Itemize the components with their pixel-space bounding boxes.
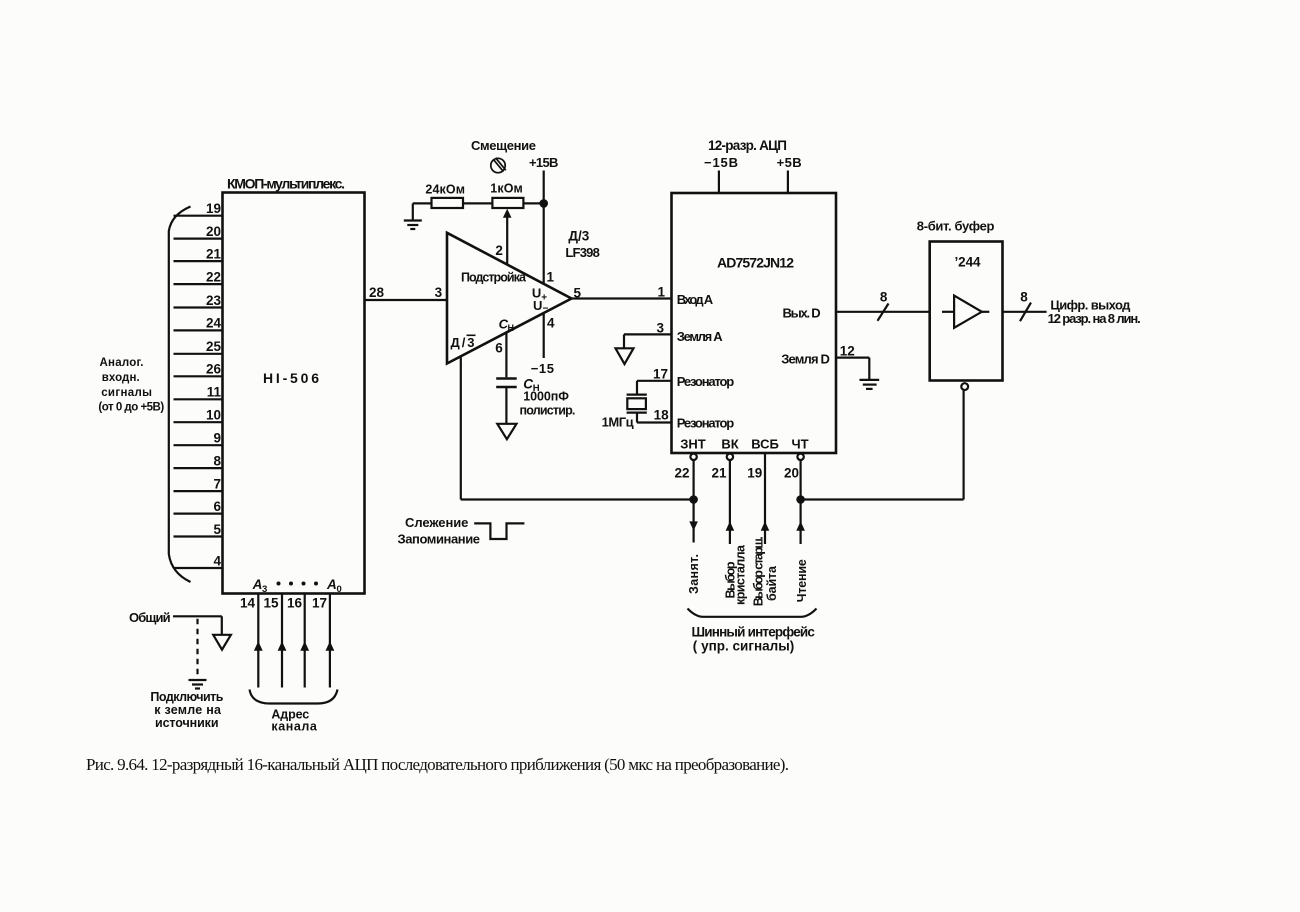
svg-text:1: 1 <box>547 270 555 285</box>
wire pin 25 <box>174 339 223 354</box>
wire pin 22 <box>174 269 223 284</box>
svg-text:U: U <box>533 298 542 313</box>
screw trimmer symbol <box>491 158 506 173</box>
pin CHT read (20) <box>784 437 809 545</box>
ground source (3-bar) <box>189 680 207 689</box>
ground digital (3-bar) <box>860 380 880 389</box>
svg-text:Д/3: Д/3 <box>568 229 589 244</box>
wire mux output pin 28 to S/H pin 3 <box>365 285 448 300</box>
svg-text:7: 7 <box>213 476 221 491</box>
svg-text:28: 28 <box>369 285 385 300</box>
svg-text:к земле на: к земле на <box>154 703 222 717</box>
label digital output <box>1048 298 1141 326</box>
svg-text:−15В: −15В <box>704 155 738 170</box>
label connect to source ground <box>150 690 223 730</box>
svg-text:21: 21 <box>206 246 222 261</box>
svg-text:источники: источники <box>155 716 219 730</box>
svg-text:9: 9 <box>213 431 221 446</box>
svg-text:Рис. 9.64. 12-разрядный 16-кан: Рис. 9.64. 12-разрядный 16-канальный АЦП… <box>86 755 789 774</box>
op-amp U2 LF398 sample-hold triangle <box>447 233 572 364</box>
wire address pin 15 <box>263 594 286 688</box>
svg-text:3: 3 <box>435 285 443 300</box>
svg-text:Общий: Общий <box>129 610 171 625</box>
svg-text:25: 25 <box>206 339 222 354</box>
svg-text:Выбор старш.: Выбор старш. <box>752 536 766 606</box>
wire address pin 16 <box>287 594 309 688</box>
svg-text:1000пФ: 1000пФ <box>523 390 569 404</box>
svg-text:19: 19 <box>747 466 762 481</box>
svg-text:23: 23 <box>206 293 222 308</box>
brace channel address <box>250 690 338 704</box>
buffer enable circle <box>961 383 968 390</box>
svg-text:AD7572JN12: AD7572JN12 <box>717 255 794 271</box>
svg-text:Аналог.: Аналог. <box>100 357 144 369</box>
svg-text:20: 20 <box>206 224 221 239</box>
label track/hold waveform <box>398 515 525 546</box>
svg-text:Резонатор: Резонатор <box>677 416 735 431</box>
ground analog triangle (capacitor) <box>497 424 516 439</box>
svg-text:22: 22 <box>674 466 689 481</box>
wire capacitor to ground <box>505 387 507 424</box>
output data bus Vyh D <box>783 290 930 321</box>
wire pin 8 <box>174 453 223 468</box>
svg-text:4: 4 <box>213 553 221 568</box>
svg-text:Занят.: Занят. <box>687 554 701 594</box>
wire pin 26 <box>174 362 223 377</box>
svg-text:8: 8 <box>1020 290 1028 305</box>
brace bus interface <box>688 609 817 617</box>
label D/3 LF398 <box>565 229 599 261</box>
label bus interface <box>692 625 816 654</box>
ground analog triangle (common) <box>213 635 231 650</box>
multiplexer U1 HI-506 <box>223 176 365 594</box>
svg-text:1МГц: 1МГц <box>602 415 634 430</box>
svg-text:+5В: +5В <box>777 155 802 170</box>
pin 18 resonator <box>637 408 734 431</box>
svg-text:Подстройка: Подстройка <box>461 271 527 285</box>
ground at R1 (3-bar) <box>404 203 422 229</box>
svg-text:’244: ’244 <box>955 254 981 269</box>
wire address pin 14 <box>240 594 263 688</box>
svg-text:19: 19 <box>206 201 221 216</box>
wire dashed to source ground <box>196 619 198 677</box>
svg-text:( упр. сигналы): ( упр. сигналы) <box>693 639 795 654</box>
wire pin 9 <box>174 431 223 446</box>
svg-text:Земля А: Земля А <box>677 329 724 344</box>
pin VSB high byte select (19) <box>747 437 779 545</box>
svg-text:(от 0 до +5В): (от 0 до +5В) <box>98 402 164 414</box>
wire feedback busy to S/H <box>461 498 694 500</box>
svg-text:5: 5 <box>213 522 221 537</box>
wire pin 21 <box>174 246 223 261</box>
resistor R1 24kOhm <box>413 182 493 208</box>
svg-text:+15В: +15В <box>529 155 558 170</box>
svg-text:кристалла: кристалла <box>734 544 748 605</box>
svg-text:21: 21 <box>711 466 727 481</box>
svg-text:6: 6 <box>213 499 221 514</box>
node junction busy <box>689 495 698 504</box>
svg-text:17: 17 <box>653 367 668 382</box>
pin 3 analog ground <box>624 321 723 349</box>
svg-text:полистир.: полистир. <box>520 404 576 418</box>
svg-text:Запоминание: Запоминание <box>398 531 481 546</box>
svg-text:8: 8 <box>213 453 221 468</box>
svg-text:сигналы: сигналы <box>101 387 152 399</box>
wire S/H output pin 5 to ADC pin 1 <box>572 285 672 301</box>
wire +15V to pin 1 <box>544 203 555 284</box>
svg-text:A: A <box>326 577 337 592</box>
svg-text:24кОм: 24кОм <box>425 182 465 196</box>
wire pin 11 <box>174 385 223 400</box>
svg-text:Вход А: Вход А <box>677 292 714 307</box>
wiper arrow to pin 2 <box>495 209 511 266</box>
svg-text:LF398: LF398 <box>565 245 599 260</box>
svg-text:Смещение: Смещение <box>471 138 536 153</box>
svg-text:КМОП-мультиплекс.: КМОП-мультиплекс. <box>227 176 345 192</box>
svg-text:18: 18 <box>654 408 670 423</box>
svg-text:8-бит. буфер: 8-бит. буфер <box>917 219 995 234</box>
svg-text:16: 16 <box>287 596 303 611</box>
wire pin 10 <box>174 408 223 423</box>
svg-text:12 разр. на 8 лин.: 12 разр. на 8 лин. <box>1048 311 1141 326</box>
node junction +15V <box>539 199 548 208</box>
svg-text:−: − <box>543 304 549 315</box>
svg-text:HI-506: HI-506 <box>263 370 320 386</box>
buffer U4 '244 <box>930 242 1003 381</box>
svg-text:11: 11 <box>207 385 222 400</box>
wire pin 20 <box>174 224 223 239</box>
node common (Общий) <box>129 610 222 635</box>
address pins A3..A0 labels <box>252 577 342 595</box>
wire pin 19 <box>174 201 223 216</box>
svg-text:Слежение: Слежение <box>405 515 468 530</box>
power -15V ADC <box>704 155 738 193</box>
svg-text:4: 4 <box>547 315 555 330</box>
wire pin 6 to hold capacitor <box>495 333 506 377</box>
ADC U3 AD7572JN12 <box>672 193 837 453</box>
wire pin 5 <box>174 522 223 537</box>
svg-text:14: 14 <box>240 596 256 611</box>
svg-text:20: 20 <box>784 466 799 481</box>
svg-text:Резонатор: Резонатор <box>677 374 735 389</box>
label channel address <box>271 708 317 734</box>
svg-text:1: 1 <box>657 285 665 300</box>
svg-text:12-разр. АЦП: 12-разр. АЦП <box>708 138 787 153</box>
svg-text:байта: байта <box>765 565 779 601</box>
svg-text:входн.: входн. <box>102 372 140 384</box>
svg-text:Вых. D: Вых. D <box>783 306 821 321</box>
power +5V ADC <box>777 155 802 193</box>
output bus with slash <box>1003 290 1047 322</box>
pin 17 resonator <box>637 367 734 395</box>
svg-text:8: 8 <box>880 290 888 305</box>
capacitor C1 CH 1000pF <box>496 377 575 418</box>
svg-text:ВСБ: ВСБ <box>751 437 779 452</box>
svg-text:ВК: ВК <box>721 437 738 452</box>
svg-text:Подключить: Подключить <box>150 690 223 704</box>
svg-text:3: 3 <box>262 584 267 595</box>
svg-text:15: 15 <box>263 596 279 611</box>
pin VK chip select (21) <box>711 437 738 545</box>
svg-text:17: 17 <box>312 596 327 611</box>
svg-text:Земля D: Земля D <box>781 352 830 367</box>
svg-text:A: A <box>252 577 263 592</box>
svg-text:0: 0 <box>337 584 342 595</box>
wire pin 4 <box>174 553 223 568</box>
wire address pin 17 <box>312 594 334 688</box>
pin 12 digital ground <box>781 344 869 380</box>
svg-text:канала: канала <box>271 720 317 734</box>
svg-text:Шинный интерфейс: Шинный интерфейс <box>692 625 816 640</box>
svg-text:3: 3 <box>656 321 664 336</box>
svg-text:10: 10 <box>206 408 221 423</box>
svg-text:H: H <box>508 323 515 333</box>
svg-text:6: 6 <box>495 340 503 355</box>
wire read to buffer enable <box>801 390 964 500</box>
svg-text:24: 24 <box>206 316 222 331</box>
wire pin 24 <box>174 316 223 331</box>
node junction read <box>796 495 805 504</box>
svg-text:1кОм: 1кОм <box>490 181 523 195</box>
svg-text:−15: −15 <box>531 361 554 376</box>
label high byte select (rotated) <box>752 536 780 606</box>
label chip select (rotated) <box>724 544 748 605</box>
power +15V wire <box>543 171 545 204</box>
svg-text:ЗНТ: ЗНТ <box>680 437 706 452</box>
buffer triangle <box>942 296 989 328</box>
svg-text:2: 2 <box>495 243 503 258</box>
wire pin 4 to -15 <box>531 314 555 376</box>
ground analog triangle (ADC) <box>616 348 634 364</box>
svg-text:22: 22 <box>206 269 221 284</box>
svg-text:12: 12 <box>840 344 855 359</box>
svg-text:Д/3: Д/3 <box>451 335 475 350</box>
analog input brace <box>169 207 191 583</box>
potentiometer R2 1kOhm <box>490 181 543 208</box>
wire pin 6 <box>174 499 223 514</box>
crystal X1 1MHz <box>602 395 647 430</box>
pin ZNT busy (22) <box>674 437 705 543</box>
wire pin 23 <box>174 293 223 308</box>
wire pin 7 <box>174 476 223 491</box>
wire track-hold control (D/3 pin) <box>460 357 462 500</box>
svg-text:26: 26 <box>206 362 222 377</box>
svg-text:5: 5 <box>574 285 582 300</box>
svg-text:ЧТ: ЧТ <box>791 437 808 452</box>
label analog inputs <box>98 357 164 414</box>
svg-text:Чтение: Чтение <box>795 559 809 602</box>
